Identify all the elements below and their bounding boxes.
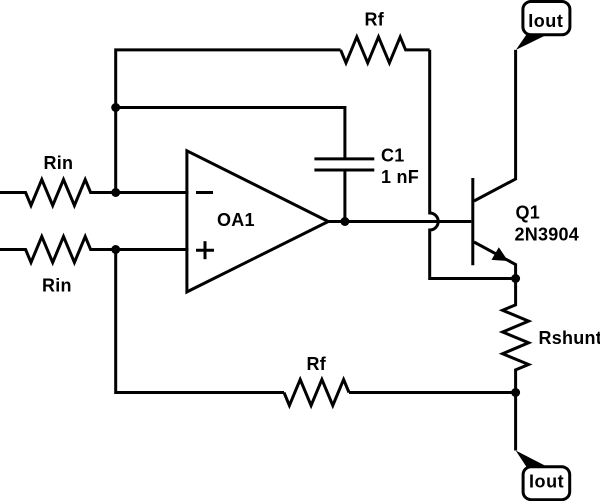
node output <box>511 388 520 397</box>
wire C1 top branch <box>116 108 345 159</box>
svg-text:Iout: Iout <box>528 11 563 31</box>
resistor Rshunt <box>503 279 529 393</box>
resistor Rf (top) <box>341 37 430 63</box>
svg-text:Rf: Rf <box>365 10 385 30</box>
wire inverting input <box>116 191 189 194</box>
resistor Rin (top) <box>0 180 116 206</box>
wire bottom feedback loop <box>116 250 284 393</box>
op-amp minus input symbol <box>196 191 213 194</box>
svg-text:2N3904: 2N3904 <box>515 224 580 244</box>
resistor Rin (bottom) <box>0 237 116 263</box>
wire Rf to output node <box>349 391 516 394</box>
node emitter <box>511 274 520 283</box>
flag Iout (bottom) <box>516 451 547 467</box>
wire non-inverting input <box>116 248 189 251</box>
transistor Q1 <box>471 178 474 265</box>
svg-text:Q1: Q1 <box>516 203 541 223</box>
node non-inverting input <box>111 245 120 254</box>
svg-text:Iout: Iout <box>529 472 564 492</box>
svg-text:Rshunt: Rshunt <box>539 328 600 348</box>
node feedback junction <box>111 103 120 112</box>
wire output to bottom flag <box>514 393 517 451</box>
wire left vertical feedback branch <box>116 50 341 193</box>
svg-text:OA1: OA1 <box>217 210 255 230</box>
resistor Rf (bottom) <box>284 380 349 406</box>
flag Iout (top) <box>516 35 547 50</box>
capacitor C1 <box>314 157 374 160</box>
node inverting input <box>111 188 120 197</box>
op-amp plus input symbol <box>196 249 214 252</box>
svg-text:Rin: Rin <box>42 276 72 296</box>
svg-text:Rin: Rin <box>44 153 74 173</box>
svg-text:C1: C1 <box>381 146 405 166</box>
svg-text:1 nF: 1 nF <box>381 167 419 187</box>
svg-text:Rf: Rf <box>307 354 327 374</box>
wire Rf to emitter with hop over base wire <box>430 50 516 279</box>
op-amp OA1 <box>187 151 328 292</box>
wire op-amp output to base <box>328 220 471 223</box>
node op-amp output <box>340 217 349 226</box>
